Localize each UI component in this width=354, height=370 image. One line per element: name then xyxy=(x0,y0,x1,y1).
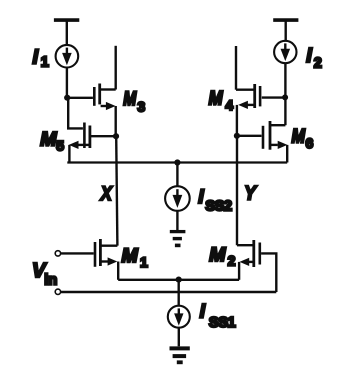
transistor M4 xyxy=(236,84,260,109)
wire M2 source down to rail xyxy=(238,262,240,280)
svg-text:3: 3 xyxy=(137,98,145,114)
svg-text:2: 2 xyxy=(314,55,322,71)
current source ISS2 xyxy=(165,186,190,211)
svg-text:SS1: SS1 xyxy=(209,314,236,331)
wire supply to I2 xyxy=(285,20,287,41)
wire Vin+ to M1 gate xyxy=(61,252,94,254)
ground (below ISS2) xyxy=(170,232,186,246)
wire M3 drain up xyxy=(114,46,116,90)
svg-text:I: I xyxy=(198,186,204,208)
label Vin xyxy=(32,260,57,288)
svg-text:M: M xyxy=(292,125,306,147)
current source I2 xyxy=(274,41,296,63)
wire middle rail xyxy=(67,161,287,163)
input terminal Vin+ xyxy=(55,251,60,256)
svg-text:1: 1 xyxy=(41,55,49,71)
label I1 xyxy=(33,46,49,70)
label M6 xyxy=(292,125,314,151)
svg-text:5: 5 xyxy=(56,138,64,154)
svg-text:in: in xyxy=(44,272,57,288)
supply rail bar (left VDD) xyxy=(54,18,79,22)
junction dot ISS2 xyxy=(174,159,180,165)
wire I1 to node A xyxy=(66,68,68,98)
label M2 xyxy=(209,244,235,269)
svg-text:X: X xyxy=(100,183,113,205)
wire M1 source down to rail xyxy=(117,262,119,280)
label node Y xyxy=(244,182,257,204)
wire node A down to M5 gate xyxy=(68,98,83,129)
wire node B to M4 gate xyxy=(262,96,285,98)
wire M5 source down to rail xyxy=(68,145,70,163)
wire source rail xyxy=(118,279,239,281)
supply rail bar (right VDD) xyxy=(273,18,298,22)
transistor M6 xyxy=(263,121,287,150)
wire M6 drain up to node B xyxy=(284,97,286,125)
wire node X branch down to M1 drain xyxy=(116,136,117,246)
transistor M3 xyxy=(94,84,115,111)
wire rail to ISS2 xyxy=(176,163,178,187)
svg-text:6: 6 xyxy=(306,135,314,151)
label I2 xyxy=(306,45,322,72)
svg-text:2: 2 xyxy=(228,253,236,269)
node B junction xyxy=(282,94,288,100)
wire M4 source down to node Y xyxy=(236,105,238,136)
wire node Y to M6 gate xyxy=(237,135,262,137)
transistor M5 xyxy=(69,123,114,150)
label M3 xyxy=(123,88,145,114)
label M4 xyxy=(209,88,234,113)
svg-text:SS2: SS2 xyxy=(205,198,232,215)
svg-text:I: I xyxy=(200,301,206,323)
current source I1 xyxy=(56,45,79,68)
current source ISS1 xyxy=(168,306,190,328)
transistor M1 xyxy=(95,239,117,267)
label M1 xyxy=(122,245,149,270)
wire supply to I1 xyxy=(66,20,68,45)
svg-text:M: M xyxy=(209,244,226,266)
svg-text:I: I xyxy=(33,46,39,68)
svg-text:M: M xyxy=(209,88,224,110)
ground (below ISS1) xyxy=(170,348,190,362)
svg-text:M: M xyxy=(123,88,137,110)
wire M6 source down to rail xyxy=(286,145,288,163)
label ISS1 xyxy=(200,301,236,331)
wire node Y branch down to M2 drain xyxy=(236,136,238,245)
junction dot ISS1 xyxy=(176,277,182,283)
wire rail to ISS1 xyxy=(177,280,179,306)
wire I2 to node B xyxy=(284,63,286,97)
svg-text:M: M xyxy=(40,129,57,151)
wire node A to M3 gate xyxy=(67,97,93,99)
input terminal Vin- xyxy=(55,289,60,294)
label ISS2 xyxy=(198,186,232,214)
transistor M2 xyxy=(237,240,260,267)
wire ISS2 to ground xyxy=(176,211,178,230)
svg-text:Y: Y xyxy=(244,182,257,204)
wire M3 source down to node X xyxy=(114,106,116,136)
node A junction xyxy=(64,95,70,101)
label M5 xyxy=(40,129,64,154)
svg-text:4: 4 xyxy=(225,97,233,113)
node Y junction xyxy=(234,133,240,139)
label node X xyxy=(100,183,113,205)
wire ISS1 to ground xyxy=(178,328,180,347)
svg-text:M: M xyxy=(122,245,139,267)
node X junction xyxy=(113,133,119,139)
wire Vin- to M2 gate xyxy=(61,291,277,293)
wire M4 drain up xyxy=(235,46,237,90)
svg-text:I: I xyxy=(306,45,312,67)
svg-text:1: 1 xyxy=(140,254,148,270)
wire M2 gate to Vin- xyxy=(261,253,276,292)
